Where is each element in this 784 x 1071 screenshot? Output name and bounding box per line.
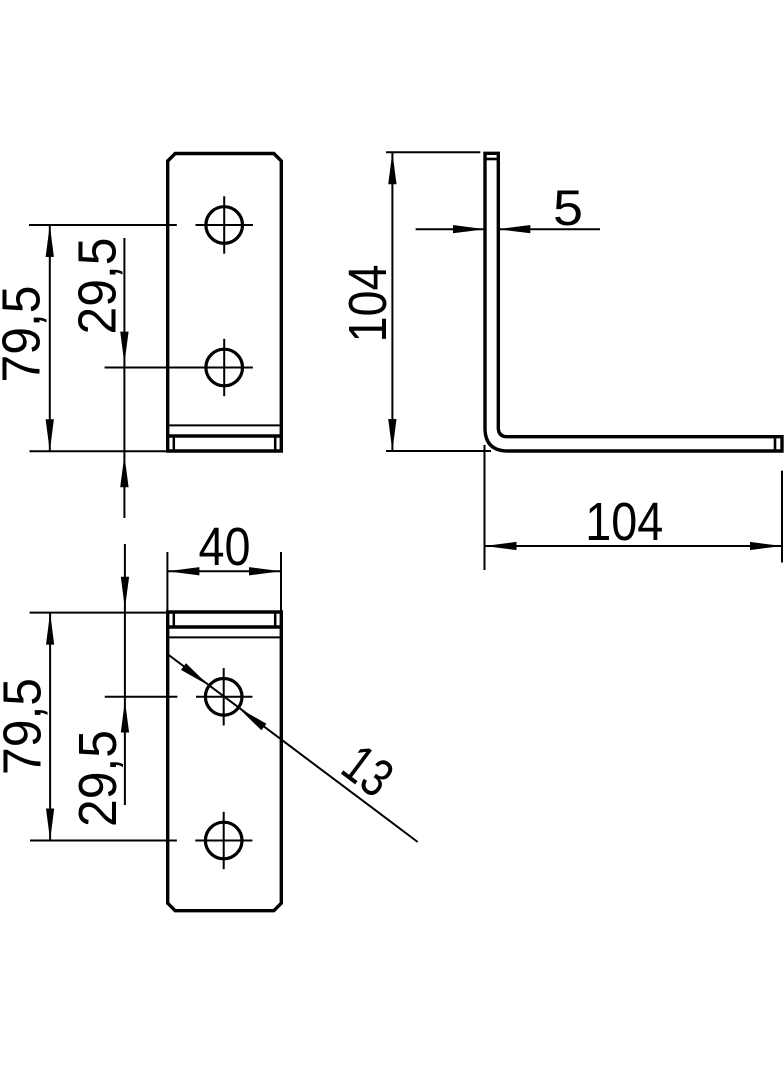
- svg-text:5: 5: [553, 180, 583, 236]
- svg-text:29,5: 29,5: [68, 238, 128, 335]
- svg-text:13: 13: [331, 733, 404, 809]
- svg-text:104: 104: [585, 492, 663, 552]
- svg-text:29,5: 29,5: [68, 730, 128, 827]
- svg-text:79,5: 79,5: [0, 678, 52, 775]
- svg-text:79,5: 79,5: [0, 286, 51, 383]
- svg-text:40: 40: [199, 517, 251, 577]
- svg-text:104: 104: [338, 265, 398, 343]
